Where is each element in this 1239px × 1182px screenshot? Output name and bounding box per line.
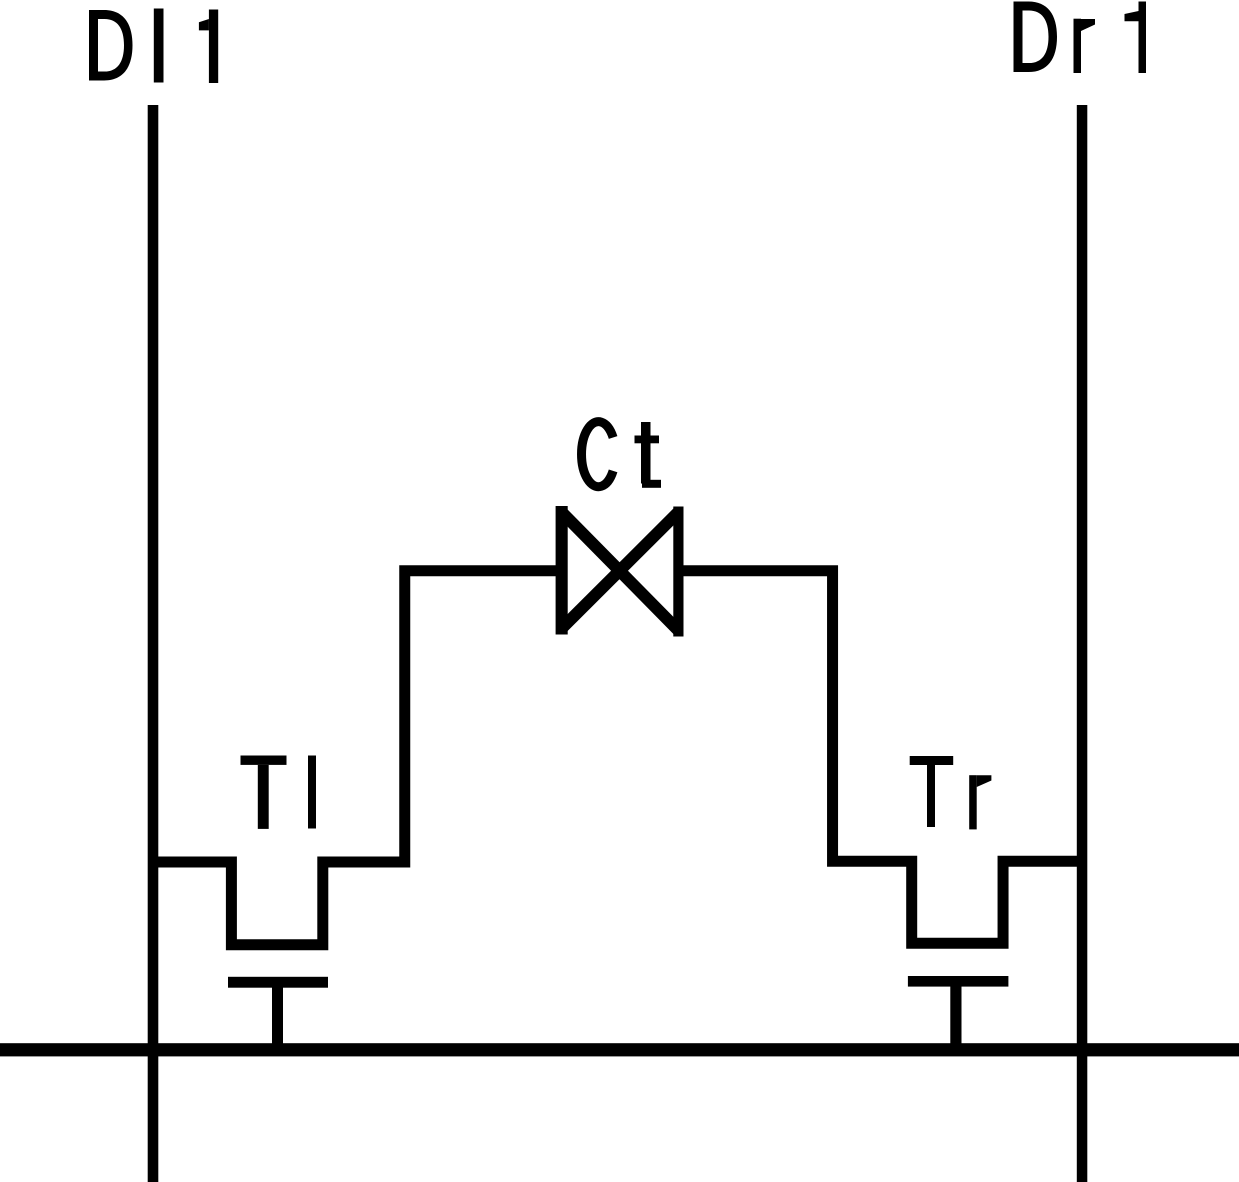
transistor Tr gate bar — [908, 976, 1009, 987]
label Ct — [582, 422, 661, 488]
wire: Dl1 through transistor Tl channel up to Ct left terminal — [150, 571, 557, 945]
label Tl — [241, 756, 317, 829]
transistor Tl gate stem — [272, 986, 283, 1045]
capacitor Ct symbol: right bar — [673, 507, 683, 637]
data line Dl1 — [148, 105, 159, 1182]
data line Dr1 — [1077, 105, 1088, 1182]
label Tr — [910, 756, 992, 829]
label Dr1 — [1014, 2, 1147, 74]
capacitor Ct symbol: diagonal bottom-left to top-right — [562, 512, 679, 629]
transistor Tr gate stem — [950, 985, 961, 1044]
capacitor Ct symbol: diagonal top-left to bottom-right — [562, 512, 679, 631]
transistor Tl gate bar — [228, 977, 328, 988]
gate scan line — [0, 1043, 1239, 1056]
wire: Ct right terminal down through transistor Tr channel to Dr1 — [683, 571, 1086, 944]
capacitor Ct symbol: left bar — [556, 506, 568, 635]
label Dl1 — [89, 9, 218, 84]
